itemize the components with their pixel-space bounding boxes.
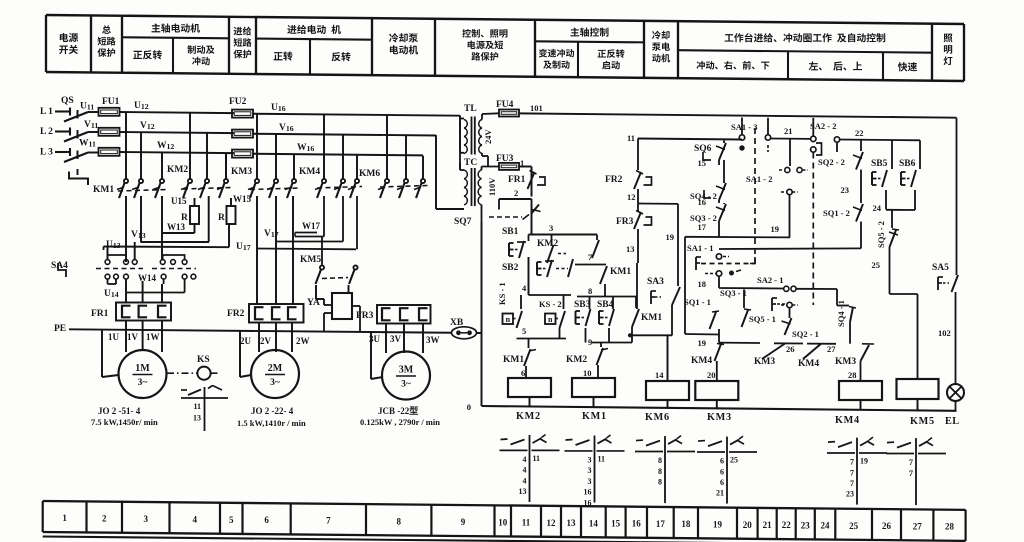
drop V12 elbow to TC primary [435, 135, 437, 209]
svg-text:R: R [218, 213, 225, 223]
svg-text:3~: 3~ [138, 378, 148, 388]
svg-text:8: 8 [658, 467, 662, 476]
svg-text:0: 0 [467, 402, 471, 412]
KM5 pole feeds [321, 237, 323, 266]
bottom rule [43, 537, 1015, 542]
svg-text:1W: 1W [146, 332, 160, 342]
TC core [471, 168, 473, 206]
drops to KM4 [323, 115, 325, 179]
svg-text:KS - 1: KS - 1 [497, 282, 507, 305]
svg-text:10: 10 [583, 368, 592, 378]
svg-text:3: 3 [144, 514, 149, 524]
svg-text:11: 11 [627, 133, 635, 143]
svg-text:FR1: FR1 [508, 175, 526, 185]
svg-text:101: 101 [530, 103, 543, 113]
svg-text:6: 6 [720, 467, 724, 476]
svg-text:24: 24 [873, 203, 882, 213]
svg-text:0.125kW , 2790r / min: 0.125kW , 2790r / min [360, 417, 440, 427]
motor 2M earth lead [239, 331, 241, 377]
svg-text:4: 4 [193, 514, 198, 524]
svg-text:FU2: FU2 [229, 97, 247, 107]
svg-text:SQ5 - 2: SQ5 - 2 [876, 221, 886, 248]
svg-text:7: 7 [850, 479, 854, 488]
svg-text:KM2: KM2 [167, 165, 188, 175]
contact KM1 aux (right) [635, 297, 637, 309]
svg-text:FU4: FU4 [496, 100, 514, 110]
svg-text:18: 18 [681, 519, 691, 529]
svg-text:19: 19 [860, 457, 868, 466]
drop V12 to KM2 [206, 133, 208, 179]
svg-text:27: 27 [913, 521, 923, 531]
svg-text:17: 17 [656, 519, 666, 529]
svg-text:L 1: L 1 [40, 107, 53, 117]
switch SA1 linkage line [754, 128, 756, 265]
coil KM5 lead [917, 294, 919, 379]
svg-text:TL: TL [464, 104, 477, 114]
svg-text:19: 19 [771, 224, 780, 234]
svg-text:13: 13 [567, 518, 577, 528]
svg-text:KM6: KM6 [645, 412, 670, 423]
svg-text:FR3: FR3 [356, 311, 374, 321]
svg-text:KM2: KM2 [537, 239, 558, 249]
svg-text:12: 12 [547, 518, 557, 528]
svg-text:SQ5 - 1: SQ5 - 1 [749, 314, 776, 324]
svg-text:21: 21 [784, 126, 793, 136]
svg-text:SB2: SB2 [502, 263, 519, 273]
drops to KM6 [386, 115, 388, 179]
KM1 pole leads down [125, 196, 127, 262]
svg-text:16: 16 [698, 197, 707, 207]
svg-text:6: 6 [521, 368, 525, 378]
motor 3M earth lead [370, 332, 372, 380]
contact cross-reference table KM2 [529, 435, 531, 502]
svg-text:W15: W15 [233, 194, 252, 204]
svg-text:22: 22 [855, 128, 864, 138]
svg-text:24: 24 [821, 521, 831, 531]
svg-text:SA5: SA5 [932, 263, 949, 273]
svg-text:KM5: KM5 [300, 255, 321, 265]
svg-text:6: 6 [720, 457, 724, 466]
svg-text:V13: V13 [131, 230, 146, 240]
svg-text:SQ7: SQ7 [454, 217, 472, 227]
header cell: power switch [60, 33, 78, 42]
svg-text:8: 8 [396, 516, 401, 526]
SA4 top bridges [108, 255, 127, 260]
svg-text:SA1 - 3: SA1 - 3 [731, 122, 757, 132]
coil KM2 [508, 378, 551, 397]
svg-text:25: 25 [872, 260, 881, 270]
svg-text:1M: 1M [135, 363, 150, 374]
svg-text:U16: U16 [271, 103, 286, 113]
svg-text:13: 13 [626, 244, 635, 254]
svg-text:KM2: KM2 [566, 355, 587, 365]
svg-text:FR2: FR2 [605, 175, 623, 185]
svg-text:7: 7 [909, 458, 913, 467]
svg-text:17: 17 [698, 222, 707, 232]
motor 1M earth lead [101, 330, 103, 377]
svg-text:2W: 2W [296, 336, 310, 346]
svg-text:SB3: SB3 [574, 300, 591, 310]
svg-text:KS - 2: KS - 2 [539, 299, 562, 309]
motor 1M [119, 350, 167, 398]
svg-text:13: 13 [519, 487, 527, 496]
contact cross-reference table KM4 [856, 438, 858, 505]
svg-text:L 2: L 2 [40, 127, 53, 137]
coil KM1 [572, 378, 615, 397]
svg-text:KM4: KM4 [299, 167, 320, 177]
svg-text:PE: PE [54, 324, 66, 334]
wire 1 to FR1 contact [519, 166, 532, 168]
header cell: spindle motor [152, 23, 200, 32]
svg-text:KM2: KM2 [516, 411, 541, 422]
svg-text:2U: 2U [240, 336, 252, 346]
svg-text:19: 19 [713, 519, 723, 529]
svg-text:25: 25 [730, 456, 738, 465]
svg-text:3M: 3M [399, 365, 414, 376]
svg-text:W12: W12 [157, 141, 174, 151]
merge to coil KM6 [631, 334, 672, 336]
drop U12 to TL primary [459, 115, 461, 152]
svg-text:V11: V11 [84, 120, 98, 130]
svg-text:22: 22 [782, 520, 792, 530]
svg-text:KM5: KM5 [910, 416, 935, 427]
svg-text:3W: 3W [426, 335, 440, 345]
svg-text:1V: 1V [127, 332, 139, 342]
coil KM5 [897, 379, 939, 399]
svg-text:QS: QS [61, 96, 74, 106]
svg-text:16: 16 [584, 498, 592, 507]
svg-text:11: 11 [193, 402, 201, 411]
svg-text:3~: 3~ [270, 378, 280, 388]
svg-text:W17: W17 [302, 221, 321, 231]
svg-text:7: 7 [850, 468, 854, 477]
svg-text:n: n [548, 315, 553, 324]
function chart header table [46, 15, 964, 24]
svg-text:SA1 - 1: SA1 - 1 [687, 243, 713, 253]
svg-text:110V: 110V [487, 177, 497, 196]
svg-text:SB4: SB4 [597, 300, 614, 310]
drop W12 to KM2 [225, 153, 227, 179]
svg-text:26: 26 [786, 344, 795, 354]
svg-text:KM4: KM4 [835, 415, 860, 426]
svg-text:20: 20 [707, 370, 716, 380]
svg-text:U17: U17 [236, 242, 251, 252]
coil KM4 [839, 381, 882, 400]
header cell: feed short-circuit protection [234, 27, 252, 36]
svg-text:28: 28 [848, 370, 857, 380]
svg-text:16: 16 [584, 488, 592, 497]
svg-text:W16: W16 [297, 143, 314, 153]
header cell: control and lighting supply protection [462, 29, 507, 38]
drop W12 to KM2 pole3 [225, 153, 227, 179]
svg-text:KM1: KM1 [503, 355, 524, 365]
drops to KM3 [256, 114, 258, 179]
svg-text:9: 9 [588, 337, 592, 347]
contact cross-reference table KM1 [594, 436, 596, 503]
lamp EL [947, 384, 964, 401]
svg-text:SQ2 - 1: SQ2 - 1 [792, 329, 819, 339]
header cell: coolant pump motor [389, 33, 418, 42]
svg-text:14: 14 [655, 370, 664, 380]
svg-text:KM3: KM3 [835, 357, 856, 367]
svg-text:SB6: SB6 [899, 159, 916, 169]
svg-text:KM1: KM1 [610, 267, 631, 277]
svg-text:JCB -22型: JCB -22型 [378, 405, 418, 416]
svg-text:2: 2 [514, 188, 518, 198]
svg-text:U14: U14 [104, 289, 119, 299]
svg-text:KM1: KM1 [582, 411, 607, 422]
header cell: coolant pump motor (control) [652, 31, 670, 40]
column number strip [43, 501, 966, 510]
svg-text:19: 19 [698, 338, 707, 348]
svg-text:2M: 2M [268, 363, 283, 374]
svg-text:24V: 24V [483, 129, 493, 145]
contact cross-reference table KM6 [664, 436, 666, 503]
svg-text:11: 11 [598, 455, 606, 464]
TC secondary [478, 170, 481, 179]
coil KM6 [646, 381, 689, 400]
svg-text:JO 2 -22- 4: JO 2 -22- 4 [251, 406, 294, 416]
KM2 pole2 lead down [208, 196, 210, 242]
svg-text:SA1 - 2: SA1 - 2 [746, 174, 772, 184]
svg-text:10: 10 [498, 517, 508, 527]
svg-text:1.5 kW,1410r / min: 1.5 kW,1410r / min [237, 418, 306, 428]
drop W12 to KM1 [161, 152, 163, 179]
svg-text:U12: U12 [134, 101, 149, 111]
svg-text:SB5: SB5 [871, 159, 888, 169]
svg-text:7: 7 [850, 458, 854, 467]
svg-text:3: 3 [588, 477, 592, 486]
svg-text:EL: EL [945, 416, 960, 427]
svg-text:KM4: KM4 [798, 359, 819, 369]
svg-text:JO 2 -51- 4: JO 2 -51- 4 [98, 406, 141, 416]
motor 3M [382, 352, 430, 400]
switch SA2 linkage line [812, 153, 814, 306]
svg-text:SA3: SA3 [647, 277, 664, 287]
svg-text:KM6: KM6 [359, 169, 380, 179]
svg-text:7: 7 [326, 516, 331, 526]
svg-text:2: 2 [102, 514, 107, 524]
SQ7 impulse contact [489, 216, 522, 218]
svg-text:15: 15 [611, 519, 621, 529]
svg-text:W14: W14 [138, 273, 157, 283]
svg-text:V16: V16 [279, 123, 294, 133]
drop V12 to KM1 [140, 132, 142, 179]
svg-text:21: 21 [716, 489, 724, 498]
svg-text:V12: V12 [140, 121, 155, 131]
svg-text:KM1: KM1 [641, 313, 662, 323]
control left rail (TC secondary to bus 0) [481, 222, 483, 406]
svg-text:23: 23 [841, 185, 850, 195]
svg-text:V17: V17 [264, 229, 279, 239]
svg-text:U15: U15 [171, 196, 187, 206]
svg-text:2V: 2V [260, 336, 272, 346]
svg-text:FR1: FR1 [91, 309, 109, 319]
svg-text:4: 4 [523, 476, 527, 485]
svg-text:W13: W13 [167, 222, 186, 232]
svg-text:27: 27 [827, 344, 836, 354]
svg-text:SQ1 - 1: SQ1 - 1 [684, 297, 711, 307]
KS contact [204, 387, 206, 431]
svg-text:SB1: SB1 [502, 227, 519, 237]
svg-text:8: 8 [658, 456, 662, 465]
svg-text:13: 13 [193, 414, 201, 423]
svg-text:KM3: KM3 [707, 412, 732, 423]
svg-text:FR2: FR2 [227, 309, 245, 319]
svg-text:W11: W11 [79, 139, 96, 149]
svg-text:25: 25 [849, 521, 859, 531]
svg-text:3V: 3V [390, 334, 402, 344]
TL core [471, 117, 473, 155]
svg-text:8: 8 [658, 477, 662, 486]
svg-text:23: 23 [846, 490, 854, 499]
svg-text:L 3: L 3 [40, 148, 53, 158]
svg-text:19: 19 [666, 232, 675, 242]
svg-text:SQ1 - 2: SQ1 - 2 [823, 208, 850, 218]
svg-text:TC: TC [464, 158, 477, 168]
svg-text:7.5 kW,1450r/ min: 7.5 kW,1450r/ min [91, 417, 158, 427]
svg-text:KM1: KM1 [93, 185, 114, 195]
resistor R(W15) lower lead [228, 224, 230, 247]
coil KM3 [695, 381, 738, 400]
svg-text:3: 3 [588, 466, 592, 475]
svg-text:102: 102 [938, 328, 951, 338]
svg-text:FR3: FR3 [616, 217, 634, 227]
svg-text:26: 26 [882, 521, 892, 531]
svg-text:3: 3 [549, 223, 553, 233]
svg-text:SQ3 - 1: SQ3 - 1 [720, 288, 747, 298]
svg-text:11: 11 [522, 518, 531, 528]
svg-text:FU1: FU1 [102, 97, 120, 107]
header cell: main short-circuit protection [102, 25, 111, 34]
header cell: spindle control [570, 27, 608, 36]
svg-text:7: 7 [909, 469, 913, 478]
svg-text:SQ2 - 2: SQ2 - 2 [818, 157, 845, 167]
svg-text:SA2 - 1: SA2 - 1 [757, 275, 783, 285]
feed motor phase wires to FR2 [256, 196, 258, 304]
svg-text:KM3: KM3 [754, 357, 775, 367]
svg-text:21: 21 [763, 520, 773, 530]
svg-text:3~: 3~ [401, 380, 411, 390]
svg-text:U11: U11 [80, 102, 94, 112]
svg-text:KM4: KM4 [691, 356, 712, 366]
svg-text:1: 1 [62, 513, 67, 523]
svg-text:12: 12 [627, 192, 636, 202]
contact cross-reference table KM5 [915, 438, 917, 505]
svg-text:5: 5 [229, 515, 234, 525]
header cell: worktable feed and auto control [725, 33, 886, 42]
svg-text:20: 20 [743, 520, 753, 530]
svg-text:4: 4 [523, 466, 527, 475]
TL secondary [479, 120, 482, 129]
svg-text:6: 6 [720, 478, 724, 487]
svg-text:8: 8 [588, 286, 592, 296]
svg-text:1U: 1U [108, 332, 120, 342]
svg-text:14: 14 [589, 518, 599, 528]
svg-text:15: 15 [698, 158, 707, 168]
drop U12 to KM1 [125, 112, 127, 179]
motor 2M [251, 350, 299, 398]
svg-text:6: 6 [264, 515, 269, 525]
svg-text:11: 11 [533, 454, 541, 463]
svg-text:KM3: KM3 [231, 167, 252, 177]
svg-text:n: n [506, 315, 511, 324]
svg-text:5: 5 [522, 326, 526, 336]
svg-text:28: 28 [945, 522, 955, 532]
svg-text:23: 23 [801, 520, 811, 530]
svg-text:3: 3 [588, 456, 592, 465]
svg-text:18: 18 [698, 279, 707, 289]
drop U12 to KM2 [189, 113, 191, 179]
svg-text:16: 16 [632, 519, 642, 529]
svg-text:9: 9 [461, 517, 466, 527]
wire to SA1-1 row [719, 247, 861, 250]
svg-text:4: 4 [522, 283, 527, 293]
contact cross-reference table KM3 [726, 437, 728, 504]
svg-text:KS: KS [197, 355, 210, 365]
header cell: lighting lamp [944, 34, 953, 43]
svg-text:4: 4 [523, 455, 527, 464]
header cell: feed motor [287, 25, 341, 34]
